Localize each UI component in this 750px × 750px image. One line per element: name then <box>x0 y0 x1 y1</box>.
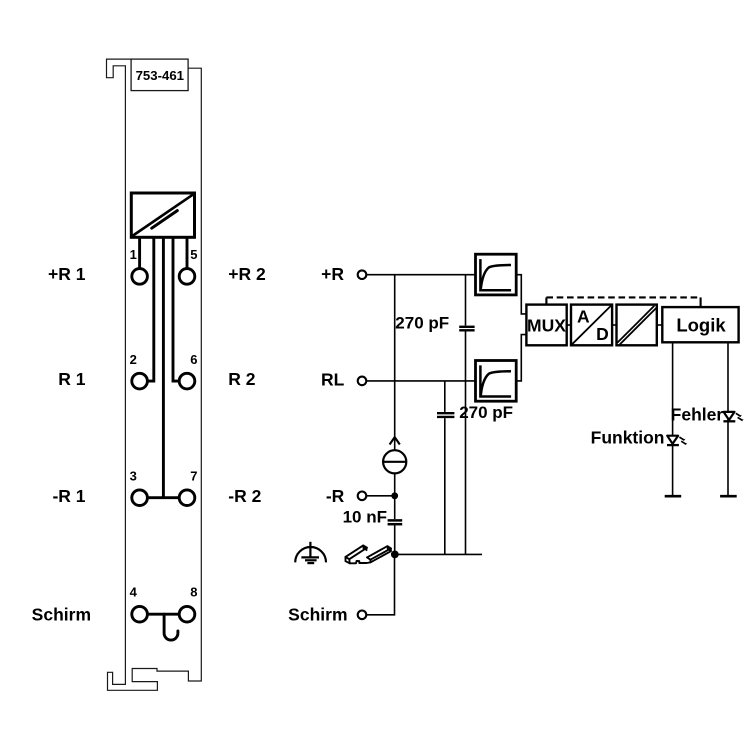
terminal 2 <box>130 352 148 389</box>
svg-text:270 pF: 270 pF <box>459 403 513 422</box>
terminal 4 <box>130 585 148 622</box>
module 753-461 outline <box>107 59 202 690</box>
svg-text:4: 4 <box>130 585 138 600</box>
junction dot -R <box>391 492 398 499</box>
svg-text:-R 2: -R 2 <box>228 486 261 506</box>
terminal 3 <box>130 468 148 505</box>
svg-text:Schirm: Schirm <box>288 604 347 624</box>
Logik <box>662 307 738 342</box>
svg-text:Fehler: Fehler <box>671 405 724 425</box>
LED Funktion <box>667 436 687 445</box>
svg-text:-R: -R <box>326 486 345 506</box>
svg-text:+R 1: +R 1 <box>48 264 86 284</box>
ground Funktion <box>665 495 682 498</box>
svg-text:RL: RL <box>321 369 345 389</box>
terminal 5 <box>179 247 197 284</box>
earth symbol <box>295 542 326 563</box>
wire pin 1 <box>138 237 141 268</box>
isolation barrier <box>617 305 657 346</box>
svg-text:R 1: R 1 <box>58 369 86 389</box>
svg-text:+R 2: +R 2 <box>228 264 266 284</box>
filter F1 <box>476 254 517 295</box>
terminal RL <box>358 377 367 386</box>
ground Fehler <box>720 495 737 498</box>
wire pin 3 <box>162 237 165 497</box>
wire +R <box>366 274 475 276</box>
wire pin 2 <box>147 237 153 381</box>
svg-text:8: 8 <box>190 585 197 600</box>
svg-text:6: 6 <box>190 352 197 367</box>
label box 753-461 <box>131 59 188 91</box>
svg-text:Funktion: Funktion <box>591 428 665 448</box>
svg-text:1: 1 <box>130 247 137 262</box>
current source arrow <box>390 437 400 444</box>
svg-text:R 2: R 2 <box>228 369 256 389</box>
wire current source to -R <box>394 473 396 519</box>
wire MUX to A/D <box>567 324 571 326</box>
wire isolation to Logik <box>657 324 663 326</box>
capacitor C2 270 pF <box>437 413 454 417</box>
capacitor C1 270 pF <box>459 327 474 331</box>
svg-text:5: 5 <box>190 247 197 262</box>
capacitor 10 nF <box>388 520 403 524</box>
wire link 3-7 <box>147 496 179 499</box>
wire pin 5 <box>186 237 189 268</box>
wire F2 to MUX <box>516 335 526 381</box>
svg-text:D: D <box>596 324 609 344</box>
svg-text:3: 3 <box>130 468 137 483</box>
capacitor C1 270 pF wire <box>465 275 467 555</box>
wire Logik to Fehler LED <box>727 342 729 496</box>
wire pin 6 <box>173 237 179 381</box>
terminal +R <box>358 270 367 279</box>
shield hook <box>164 614 178 640</box>
terminal 8 <box>179 585 197 622</box>
capacitor C2 270 pF wire <box>444 381 446 555</box>
svg-text:10 nF: 10 nF <box>343 508 387 527</box>
svg-text:2: 2 <box>130 352 137 367</box>
wire Logik to Funktion LED <box>672 342 674 496</box>
svg-text:A: A <box>577 306 590 326</box>
shield rail wire <box>395 553 482 555</box>
wire RL <box>366 380 475 382</box>
terminal 6 <box>179 352 197 389</box>
wire link 4-8 <box>147 613 179 616</box>
terminal 7 <box>179 468 197 505</box>
svg-text:270 pF: 270 pF <box>395 314 449 333</box>
wire F1 to MUX <box>516 275 526 314</box>
DIN rail <box>346 545 391 563</box>
svg-text:7: 7 <box>190 468 197 483</box>
svg-text:-R 1: -R 1 <box>52 486 85 506</box>
terminal Schirm <box>358 611 367 620</box>
svg-text:Schirm: Schirm <box>32 604 91 624</box>
wire Schirm <box>366 554 394 614</box>
isolation amplifier box <box>131 193 194 237</box>
current source <box>383 450 406 473</box>
A/D converter <box>571 305 612 346</box>
wire -R <box>366 495 394 497</box>
junction dot shield <box>391 551 399 559</box>
LED Fehler <box>723 412 743 421</box>
terminal -R <box>358 492 367 501</box>
control dashed line <box>546 297 700 307</box>
MUX <box>526 305 566 346</box>
wire A/D to isolation <box>612 324 616 326</box>
svg-text:MUX: MUX <box>527 315 566 335</box>
filter F2 <box>476 361 517 402</box>
svg-text:Logik: Logik <box>676 314 726 335</box>
wire 10nF to shield node <box>394 525 396 554</box>
terminal 1 <box>130 247 148 284</box>
svg-text:753-461: 753-461 <box>136 68 184 83</box>
svg-text:+R: +R <box>321 264 344 284</box>
wire main vertical top <box>394 275 396 451</box>
